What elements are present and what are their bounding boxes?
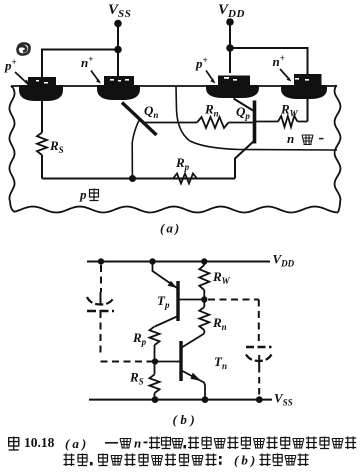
wire: Qp emitter diagonal bbox=[234, 99, 254, 111]
node: VSS rail / right capacitor branch bbox=[256, 396, 263, 403]
svg-text:(b): (b) bbox=[234, 453, 258, 468]
svg-text:VDD: VDD bbox=[218, 2, 245, 20]
pointer line p+ (3) bbox=[206, 71, 213, 81]
svg-text:Qn: Qn bbox=[144, 103, 158, 120]
wire: VDD vertical drop bbox=[229, 22, 231, 73]
svg-text:n+: n+ bbox=[81, 54, 93, 70]
wire: VDD horizontal to right n+ bbox=[230, 48, 308, 74]
dashed: right branch vertical top bbox=[258, 300, 260, 345]
svg-text:(b): (b) bbox=[173, 412, 199, 427]
transistor Qp bar bbox=[253, 101, 257, 144]
node: VSS rail / RS bottom bbox=[152, 396, 159, 403]
diffusion bowl 2 bbox=[97, 85, 140, 100]
resistor RS (a) bbox=[37, 133, 47, 156]
diffusion p+ contact 3 bbox=[218, 76, 250, 86]
node: VSS rail / Tn emitter bbox=[202, 396, 209, 403]
diffusion bowl 1 bbox=[19, 85, 63, 101]
contact speckles bbox=[36, 77, 309, 84]
svg-text:p+: p+ bbox=[195, 55, 208, 71]
svg-text:p: p bbox=[79, 187, 87, 202]
joins of torn corners bbox=[10, 202, 340, 213]
transistor Tn emitter bbox=[183, 371, 206, 400]
node: VDD rail / left capacitor branch bbox=[98, 258, 104, 264]
wire: Rn horizontal bbox=[143, 122, 254, 124]
wire: substrate curve from Qn to junction bbox=[132, 120, 139, 179]
svg-text:n+: n+ bbox=[273, 53, 285, 69]
svg-text:Rp: Rp bbox=[175, 155, 190, 172]
capacitor left straight plate bbox=[87, 310, 114, 313]
transistor Tn base wire bbox=[155, 361, 180, 363]
svg-text:VSS: VSS bbox=[108, 2, 131, 20]
diffusion bowl 3 bbox=[206, 85, 259, 98]
svg-text:n: n bbox=[134, 436, 141, 451]
wire: substrate bottom bus bbox=[42, 178, 235, 180]
caption line 2 bbox=[64, 453, 309, 468]
surface line bbox=[11, 85, 337, 87]
transistor Tp emitter bbox=[153, 263, 178, 288]
node: VDD rail / RW top bbox=[201, 258, 207, 264]
pointer line n+ (4) bbox=[280, 69, 289, 79]
capacitor left curved plate bbox=[87, 297, 114, 305]
svg-text:RW: RW bbox=[212, 269, 231, 286]
wire: VSS horizontal to left p+ bbox=[42, 50, 118, 79]
transistor Tp bar bbox=[176, 281, 179, 321]
svg-text:Rp: Rp bbox=[132, 330, 147, 347]
node VSS junction bbox=[114, 46, 122, 54]
svg-text:RW: RW bbox=[280, 102, 299, 119]
svg-text:Tp: Tp bbox=[157, 293, 170, 310]
dashed: right branch vertical bottom bbox=[258, 366, 260, 396]
caption line 1 bbox=[8, 435, 356, 451]
wire: VDD rail bbox=[87, 261, 270, 263]
transistor Qn bar bbox=[122, 103, 157, 136]
torn edge bottom wavy bbox=[14, 207, 338, 213]
diffusion n+ contact 4 bbox=[294, 74, 322, 86]
svg-text:10.18: 10.18 bbox=[24, 435, 55, 450]
wire: VSS rail bbox=[89, 399, 272, 401]
node: RW/Rn junction (Tp base) bbox=[201, 296, 207, 302]
wire: RW vertical from n+ bowl bbox=[307, 99, 309, 122]
torn edge left bbox=[9, 86, 14, 202]
smudge blob bbox=[17, 43, 29, 54]
svg-text:p+: p+ bbox=[4, 57, 17, 73]
resistor Rp (b) bbox=[154, 345, 156, 359]
wire: RS bottom to substrate bus bbox=[41, 155, 43, 179]
n-well boundary bbox=[176, 86, 337, 150]
wire: RW horizontal bbox=[256, 121, 308, 123]
capacitor right straight plate bbox=[246, 346, 272, 349]
transistor Tp base wire bbox=[180, 299, 205, 301]
resistor Rp (a) bbox=[173, 174, 197, 184]
svg-text:VDD: VDD bbox=[273, 252, 295, 269]
resistor RS (b) bbox=[150, 364, 160, 400]
node: VDD rail / Tp emitter bbox=[149, 258, 155, 264]
resistor Rn (b) bbox=[199, 300, 209, 334]
node VSS dot bbox=[114, 20, 122, 28]
dashed: left branch vertical top bbox=[100, 265, 102, 292]
svg-text:Rn: Rn bbox=[204, 102, 219, 119]
svg-text:(a): (a) bbox=[65, 436, 89, 451]
resistor Rn (a) bbox=[197, 117, 229, 128]
dashed: left branch vertical bottom bbox=[100, 311, 102, 357]
diffusion n+ contact 2 bbox=[104, 76, 134, 85]
svg-text:Rn: Rn bbox=[212, 315, 227, 332]
node VDD dot bbox=[226, 18, 234, 26]
svg-text:VSS: VSS bbox=[274, 391, 293, 408]
wire: right leg up from bus bbox=[235, 141, 255, 179]
torn edge right bbox=[335, 85, 341, 202]
transistor Tn bar bbox=[179, 341, 182, 381]
svg-text:Tn: Tn bbox=[214, 354, 227, 371]
transistor Tn collector bbox=[183, 334, 205, 348]
resistor RW (a) bbox=[278, 116, 298, 127]
pointer line n+ (2) bbox=[91, 71, 99, 82]
dashed: left branch horizontal bbox=[101, 361, 153, 363]
svg-text:(a): (a) bbox=[160, 221, 181, 236]
svg-text:RS: RS bbox=[129, 370, 144, 387]
diffusion p+ contact 1 bbox=[28, 77, 56, 86]
svg-text:RS: RS bbox=[49, 138, 64, 155]
node: Rp/RS junction (Tn base) bbox=[152, 358, 158, 364]
node substrate junction bbox=[129, 175, 136, 182]
node VDD junction bbox=[226, 44, 234, 52]
svg-text:n: n bbox=[287, 131, 294, 146]
pointer line p+ (1) bbox=[15, 72, 29, 85]
dashed: right branch horizontal bbox=[208, 299, 259, 301]
wire: VSS vertical drop bbox=[117, 24, 119, 78]
diffusion bowl 4 bbox=[281, 85, 327, 99]
wire: left leg below p+ to RS bbox=[41, 100, 43, 133]
capacitor right curved plate bbox=[246, 355, 272, 362]
resistor RW (b) bbox=[199, 262, 209, 300]
transistor Tp collector bbox=[155, 317, 177, 327]
